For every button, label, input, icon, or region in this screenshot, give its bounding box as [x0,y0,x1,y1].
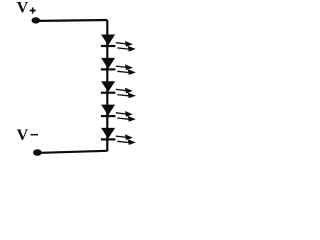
LED D1 [101,35,135,51]
svg-text:V: V [17,127,29,144]
wire vertical bus [106,20,108,151]
node V- terminal dot [33,149,42,156]
wire top horizontal V+ to corner [39,19,107,22]
LED D4 [101,105,135,121]
LED D5 [101,128,135,144]
node V+ terminal dot [32,17,41,23]
LED D2 [101,58,135,74]
svg-text:V: V [17,0,29,17]
LED D3 [101,82,135,98]
wire bottom horizontal corner to V- [41,151,107,153]
